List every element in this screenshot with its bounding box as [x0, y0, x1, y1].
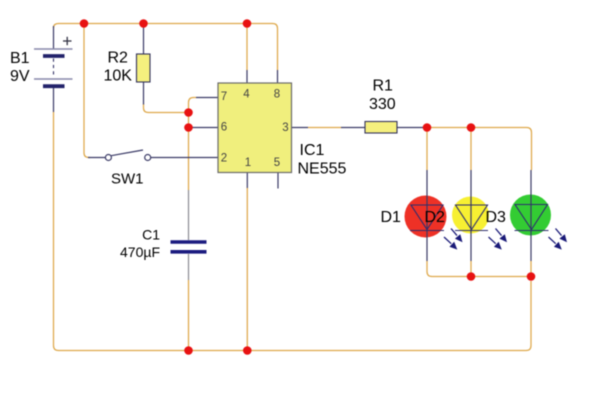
svg-text:R2: R2 — [108, 50, 129, 67]
svg-text:D2: D2 — [425, 209, 446, 226]
svg-text:10K: 10K — [104, 68, 133, 85]
svg-text:9V: 9V — [10, 68, 30, 85]
svg-text:D3: D3 — [486, 209, 507, 226]
svg-text:IC1: IC1 — [300, 142, 325, 159]
svg-text:NE555: NE555 — [298, 161, 347, 178]
svg-text:R1: R1 — [373, 78, 394, 95]
svg-text:2: 2 — [221, 153, 227, 165]
svg-text:D1: D1 — [381, 209, 402, 226]
svg-text:330: 330 — [369, 96, 396, 113]
svg-text:1: 1 — [245, 157, 251, 169]
svg-text:C1: C1 — [142, 227, 160, 243]
svg-text:SW1: SW1 — [111, 171, 144, 188]
svg-text:B1: B1 — [10, 50, 30, 67]
svg-text:6: 6 — [221, 122, 227, 134]
svg-text:470µF: 470µF — [120, 244, 160, 260]
svg-text:8: 8 — [274, 89, 280, 101]
svg-text:3: 3 — [282, 122, 288, 134]
svg-text:7: 7 — [221, 91, 227, 103]
svg-text:4: 4 — [243, 89, 250, 101]
svg-text:5: 5 — [274, 157, 280, 169]
